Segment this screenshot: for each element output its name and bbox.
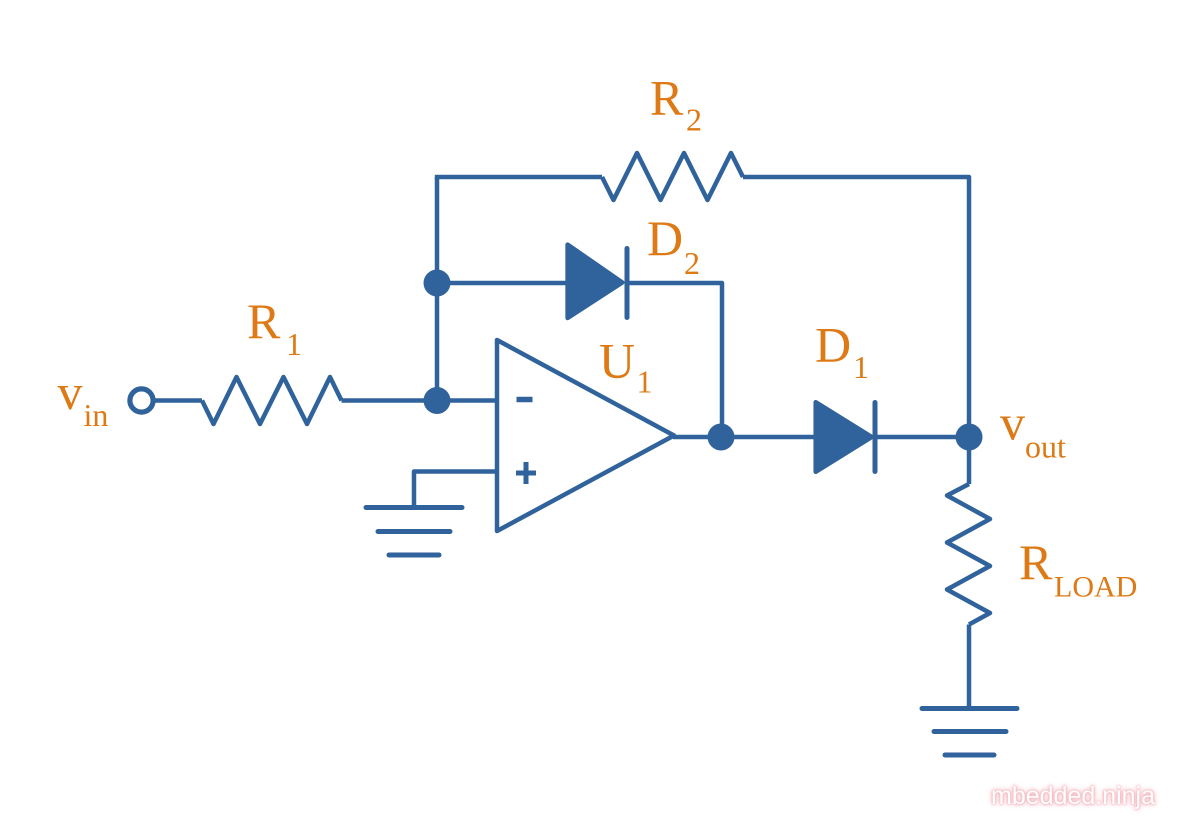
label R_LOAD	[1019, 534, 1137, 604]
svg-text:v: v	[58, 364, 83, 420]
op-amp U1	[497, 340, 674, 531]
svg-text:R: R	[247, 293, 281, 349]
wire node A up through node B to feedback corner	[435, 177, 440, 401]
input terminal (v_in)	[130, 389, 153, 412]
resistor R1	[202, 377, 342, 424]
junction node B (feedback branch)	[424, 270, 451, 297]
D2 cathode bar	[625, 249, 630, 318]
svg-text:2: 2	[684, 245, 700, 281]
label v_in	[58, 364, 109, 433]
ground symbol (op-amp + input)	[366, 508, 462, 556]
label D2	[647, 210, 700, 281]
watermark mbedded.ninja	[991, 782, 1171, 811]
wire D1 cathode to v_out node	[877, 435, 969, 440]
junction node A (inverting input)	[424, 387, 451, 414]
label D1	[815, 317, 869, 386]
svg-text:out: out	[1025, 429, 1066, 465]
svg-text:2: 2	[686, 102, 702, 138]
wire R1 to node A	[342, 398, 438, 403]
wire node B to D2 anode	[437, 281, 567, 286]
wire v_out node to R_LOAD	[967, 437, 972, 484]
resistor R_LOAD	[947, 484, 990, 625]
svg-text:LOAD: LOAD	[1054, 571, 1137, 604]
wire top feedback left segment	[435, 175, 602, 180]
ground symbol (load)	[922, 709, 1017, 756]
wire op-amp output to D1 anode	[673, 435, 814, 440]
svg-text:v: v	[1000, 395, 1025, 451]
wire R_LOAD to ground	[967, 625, 972, 709]
label R2	[650, 70, 702, 138]
svg-text:D: D	[815, 317, 851, 373]
label U1	[599, 333, 653, 400]
wire D2 cathode to output node	[627, 283, 722, 437]
junction node (op-amp output)	[708, 424, 735, 451]
wire node A to op-amp inverting input	[437, 398, 497, 403]
D1 cathode bar	[873, 403, 878, 472]
label R1	[247, 293, 302, 362]
junction node v_out	[956, 424, 983, 451]
svg-text:1: 1	[286, 326, 302, 362]
label v_out	[1000, 395, 1066, 465]
diode D1	[816, 402, 872, 472]
svg-text:U: U	[599, 333, 635, 389]
resistor R2	[602, 153, 743, 200]
U1 non-inverting input marker (+)	[516, 462, 536, 484]
wire R2 to right column down to v_out node	[743, 177, 969, 437]
svg-text:1: 1	[637, 364, 653, 400]
svg-text:in: in	[84, 397, 109, 433]
svg-text:1: 1	[853, 349, 869, 385]
wire op-amp non-inverting input to ground	[414, 472, 497, 508]
svg-text:D: D	[647, 210, 683, 266]
wire input terminal to R1	[153, 398, 202, 403]
svg-text:R: R	[650, 70, 684, 126]
svg-text:R: R	[1019, 534, 1053, 590]
diode D2	[568, 245, 623, 318]
U1 inverting input marker (-)	[517, 397, 533, 403]
